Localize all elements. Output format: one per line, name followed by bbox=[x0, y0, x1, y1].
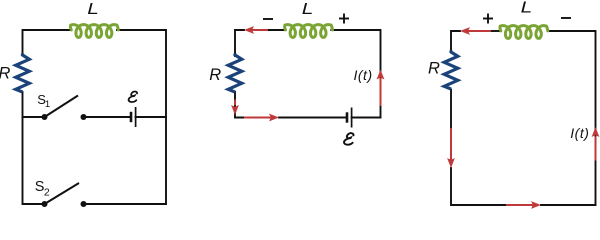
wire: top-left wire to coil bbox=[23, 30, 71, 54]
wire: coil to top right corner down right rail bbox=[331, 30, 380, 118]
wire: battery to right rail bbox=[136, 116, 167, 118]
plus sign (mid) bbox=[339, 14, 349, 24]
svg-text:R: R bbox=[0, 65, 11, 83]
red arrow down (right left rail) bbox=[447, 128, 455, 168]
inductor L (right) bbox=[500, 26, 548, 39]
red arrow up (mid right rail) bbox=[377, 70, 385, 107]
resistor R (right) bbox=[444, 51, 458, 90]
resistor R (mid) bbox=[228, 54, 242, 93]
switch S1 bbox=[42, 96, 87, 121]
wire: left rail below middle junction to bottom-left corner bbox=[23, 117, 45, 204]
battery EMF (mid) bbox=[347, 108, 352, 128]
wire: left rail top to resistor bbox=[451, 31, 460, 51]
wire: left rail below arrow to bottom, to red arrow bbox=[451, 168, 506, 205]
wire: S2 right dot to right rail bbox=[84, 203, 167, 205]
wire: bottom arrow tip to right corner bbox=[541, 204, 596, 206]
wire: coil to top-right corner down right rail bbox=[117, 30, 166, 204]
svg-text:L: L bbox=[521, 0, 533, 16]
wire: arrow tail to coil bbox=[268, 29, 285, 31]
svg-text:R: R bbox=[209, 66, 221, 84]
red arrow right (mid bottom wire) bbox=[244, 114, 279, 122]
inductor L (left) bbox=[70, 25, 118, 38]
svg-text:L: L bbox=[302, 0, 314, 17]
svg-text:L: L bbox=[87, 0, 99, 18]
svg-text:1: 1 bbox=[45, 99, 50, 110]
wire: bottom arrow tip to battery bbox=[279, 117, 347, 119]
minus sign (mid) bbox=[263, 18, 273, 20]
red arrow right (right bottom wire) bbox=[506, 201, 541, 209]
wire: arrow tail to coil bbox=[491, 30, 501, 32]
wire: S1 right dot to battery bbox=[84, 116, 132, 118]
wire: resistor bottom to red arrow area bbox=[450, 90, 452, 131]
red arrow left (right top wire) bbox=[460, 27, 491, 35]
label script-E emf (left) bbox=[129, 91, 137, 102]
minus sign (right) bbox=[561, 17, 571, 19]
wire: coil to top right corner down right rail bbox=[548, 31, 596, 205]
red arrow left (mid top wire) bbox=[244, 26, 268, 34]
svg-text:I(t): I(t) bbox=[570, 125, 589, 141]
label script-E emf (mid) bbox=[344, 133, 353, 145]
red arrow up (right right rail) bbox=[592, 127, 600, 161]
svg-text:R: R bbox=[428, 59, 440, 77]
battery EMF (left) bbox=[131, 107, 136, 127]
red arrow down (mid left rail) bbox=[231, 100, 239, 116]
svg-text:2: 2 bbox=[44, 187, 50, 199]
wire: battery to bottom right corner bbox=[352, 117, 381, 119]
plus sign (right) bbox=[483, 14, 493, 24]
switch S2 bbox=[42, 183, 87, 207]
svg-text:I(t): I(t) bbox=[354, 67, 373, 83]
inductor L (mid) bbox=[285, 25, 333, 38]
wire: top-left corner down to resistor bbox=[235, 30, 244, 56]
resistor R (left) bbox=[16, 54, 30, 93]
wire: middle wire from left rail to S1 bbox=[23, 116, 45, 118]
wire: resistor bottom to corner bbox=[235, 92, 244, 118]
